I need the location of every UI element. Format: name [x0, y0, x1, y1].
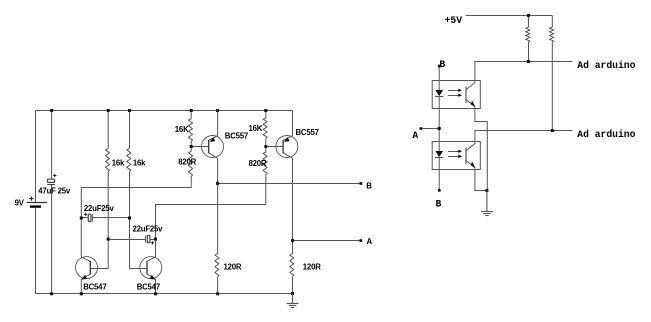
optocoupler U1 collector diagonal — [466, 81, 475, 90]
svg-text:120R: 120R — [224, 263, 242, 272]
resistor R5 16K column wire — [265, 111, 267, 153]
capacitor C2 22uF body box — [88, 214, 91, 221]
transistor Q3 emitter diagonal and wire to rail — [81, 274, 90, 294]
optocoupler U1 phototransistor base bar — [465, 87, 467, 103]
node A to LED column — [438, 127, 441, 130]
capacitor C3 22uF wire — [108, 239, 155, 241]
wire 120R-2 column (Q2 collector down to ground) — [292, 158, 294, 293]
svg-text:BC557: BC557 — [296, 128, 319, 137]
wire terminal A — [421, 128, 439, 130]
capacitor C1 plus sign — [53, 174, 56, 177]
wire bottom rail — [36, 293, 293, 295]
svg-text:22uF25v: 22uF25v — [133, 225, 164, 234]
ground right — [481, 191, 493, 216]
terminal A dot — [360, 239, 363, 242]
optocoupler U1 box — [432, 81, 480, 109]
battery BT1 9V left column bottom — [35, 208, 37, 294]
optocoupler U2 LED triangle — [435, 151, 443, 157]
wire LED column B top to U1 — [438, 66, 440, 90]
optocoupler U2 emitter diagonal — [466, 161, 475, 170]
terminal B top dot — [438, 65, 441, 68]
wire 820R-1 bottom to Q3 collector — [81, 177, 191, 258]
battery BT1 negative thick plate — [30, 205, 41, 207]
node C2 right — [128, 217, 131, 220]
transistor Q3 collector diagonal (mirrored) — [81, 257, 90, 261]
wire +5V rail — [466, 15, 553, 17]
svg-text:16k: 16k — [112, 158, 125, 167]
transistor Q1 base bar — [208, 140, 210, 153]
wire U1 LED cathode to A node — [438, 97, 440, 129]
transistor Q2 BC557 circle — [276, 136, 298, 158]
junction dots right circuit — [420, 14, 554, 192]
transistor Q3 base bar — [89, 261, 91, 274]
junction dots left circuit — [50, 109, 362, 295]
transistor Q2 emitter diagonal and wire to rail — [283, 111, 292, 141]
svg-text:16K: 16K — [249, 124, 263, 133]
optocoupler U1 LED arrows — [448, 91, 459, 96]
capacitor C3 plus sign — [151, 241, 154, 244]
optocoupler U2 LED cathode bar — [435, 157, 443, 159]
capacitor C2 plus sign — [84, 213, 87, 216]
resistor R3 16K column wire — [190, 111, 192, 152]
transistor Q4 emitter arrow (NPN outward) — [150, 275, 156, 280]
optocoupler U2 box — [432, 142, 480, 170]
battery BT1 positive plate — [27, 202, 47, 204]
resistor R4 820R zigzag — [189, 151, 193, 176]
svg-text:820R: 820R — [178, 158, 196, 167]
transistor Q4 BC547 circle — [140, 257, 162, 279]
resistor R2 16k zigzag — [127, 148, 131, 171]
resistor R9 column and zigzag wires — [528, 16, 530, 62]
optocoupler U1 LED cathode bar — [435, 96, 443, 98]
resistor R8 120R zigzag — [290, 254, 294, 277]
transistor Q4 emitter diagonal and wire to rail — [147, 274, 156, 294]
optocoupler U2 arrow heads — [458, 150, 462, 153]
wire 820R-2 bottom to Q4 collector — [156, 175, 266, 258]
svg-text:BC547: BC547 — [137, 282, 160, 291]
node Q1 base junction — [190, 145, 193, 148]
node B takeoff — [216, 182, 219, 185]
wire Ad arduino 1 — [475, 62, 573, 81]
battery BT1 plus sign — [29, 196, 33, 200]
capacitor C2 22uF wire — [81, 217, 129, 219]
resistor R1 16k column wires — [90, 111, 108, 269]
svg-text:16K: 16K — [175, 125, 189, 134]
wire top supply rail — [36, 110, 293, 112]
svg-text:+5V: +5V — [445, 15, 463, 26]
transistor Q1 BC557 circle — [202, 136, 224, 158]
optocoupler U1 emitter diagonal — [466, 100, 475, 109]
terminal B dot — [360, 182, 363, 185]
node Q2 base junction — [264, 145, 267, 148]
capacitor C1 47uF column — [51, 111, 53, 294]
svg-text:BC547: BC547 — [83, 282, 106, 291]
transistor Q4 base bar — [146, 261, 148, 274]
capacitor C3 22uF line plate — [144, 235, 146, 242]
transistor Q4 collector diagonal — [147, 257, 156, 261]
svg-text:16k: 16k — [133, 158, 146, 167]
optocoupler U1 emitter arrow — [471, 101, 476, 108]
transistor Q2 base bar — [282, 140, 284, 153]
optocoupler U2 collector diagonal — [466, 142, 475, 151]
node C2 left — [80, 217, 83, 220]
wire Ad arduino 2 — [475, 131, 573, 142]
wire 120R-1 column (Q1 collector down to bottom rail) — [217, 158, 219, 293]
resistor R1 16k zigzag — [106, 148, 110, 171]
transistor Q1 collector diagonal — [209, 153, 218, 158]
resistor R2 16k column wires — [130, 111, 148, 269]
capacitor C3 22uF body box — [147, 235, 150, 242]
wire A node to U2 LED — [438, 129, 440, 152]
optocoupler U2 emitter arrow — [471, 162, 476, 169]
node A takeoff — [291, 239, 294, 242]
resistor R10 column and zigzag wires — [551, 16, 553, 131]
capacitor C1 47uF body box — [47, 179, 54, 182]
ground left — [287, 294, 299, 308]
svg-text:B: B — [439, 59, 445, 70]
transistor Q1 emitter arrow (PNP into base) — [210, 137, 216, 142]
wire U2 emitter to ground node — [475, 170, 487, 191]
wire Q1 base from R3/R4 junction — [191, 146, 209, 148]
resistor R7 120R zigzag — [215, 254, 219, 277]
resistor R5 16K zigzag — [263, 118, 267, 138]
node C3 right — [154, 238, 157, 241]
resistor R6 820R zigzag — [263, 152, 267, 175]
transistor Q3 emitter arrow (NPN outward) — [82, 275, 88, 280]
capacitor C2 22uF line plate — [91, 214, 93, 221]
svg-text:120R: 120R — [303, 263, 321, 272]
resistor R3 16K zigzag — [189, 119, 193, 142]
wire Q2 base from R5/R6 junction — [266, 146, 283, 148]
transistor Q1 emitter diagonal and wire to rail — [209, 111, 218, 141]
optocoupler U1 arrow heads — [458, 89, 462, 92]
node ground junction — [485, 189, 488, 192]
resistor R9 zigzag — [526, 27, 530, 42]
wire output A — [293, 240, 361, 242]
svg-text:Ad arduino: Ad arduino — [577, 129, 635, 140]
wire output B — [218, 183, 361, 185]
transistor Q2 emitter arrow (PNP into base) — [284, 137, 290, 142]
svg-text:9V: 9V — [15, 199, 25, 208]
optocoupler U1 LED triangle — [435, 90, 443, 96]
wire U1 emitter route to ground node — [475, 109, 487, 191]
bottom rail junctions — [50, 292, 53, 295]
node C3 left — [107, 238, 110, 241]
resistor R10 zigzag — [550, 27, 554, 42]
capacitor C1 47uF lower plate — [47, 184, 55, 186]
svg-text:47uF 25v: 47uF 25v — [38, 186, 71, 195]
svg-text:B: B — [366, 182, 372, 191]
terminal B bottom dot — [438, 189, 441, 192]
terminal A dot — [420, 127, 423, 130]
svg-text:A: A — [367, 237, 373, 246]
svg-text:820R: 820R — [249, 159, 267, 168]
transistor Q3 BC547 circle — [76, 257, 98, 279]
svg-text:BC557: BC557 — [225, 132, 248, 141]
battery BT1 9V left column top — [35, 111, 37, 203]
optocoupler U2 phototransistor base bar — [465, 148, 467, 164]
transistor Q2 collector diagonal — [283, 153, 292, 158]
optocoupler U2 LED arrows — [448, 152, 459, 157]
RIGHT CIRCUIT — [421, 16, 573, 191]
svg-text:A: A — [412, 130, 418, 141]
wire U2 LED cathode to B bottom — [438, 158, 440, 191]
svg-text:22uF25v: 22uF25v — [84, 204, 115, 213]
svg-text:Ad arduino: Ad arduino — [577, 60, 635, 71]
svg-text:B: B — [436, 198, 442, 209]
